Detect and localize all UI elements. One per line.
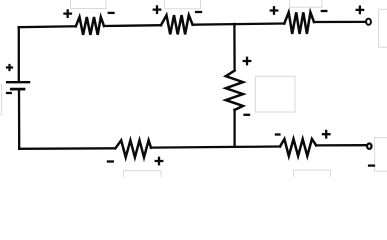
battery V1 plus label [6, 64, 13, 71]
wire top rail left segment [19, 25, 76, 28]
label box above resistor R2 [165, 0, 201, 9]
resistor R6 vertical [226, 71, 243, 110]
resistor R2 plus label [153, 5, 162, 14]
label box at right edge top terminal [379, 9, 387, 47]
wire battery to bottom rail [18, 90, 21, 149]
battery V1 long plate [7, 81, 29, 83]
wire from R5 to terminal B [316, 144, 366, 146]
wire from R6 to bottom rail node B [233, 110, 235, 147]
resistor R2 [161, 15, 193, 34]
wire between R2 and R3 through node A [193, 24, 285, 25]
resistor R1 [76, 17, 104, 35]
label box at right edge bottom terminal [375, 138, 387, 172]
wire node A vertical to resistor R6 [233, 24, 236, 70]
resistor R6 plus label [243, 57, 252, 66]
wire from R3 to terminal A [314, 21, 366, 23]
resistor R5 [280, 139, 316, 156]
battery V1 short plate [11, 88, 24, 91]
label box above resistor R1 [71, 0, 107, 9]
resistor R3 [284, 12, 314, 34]
resistor R4 plus label [155, 157, 164, 166]
resistor R3 minus label [321, 10, 328, 12]
terminal A plus label [356, 6, 365, 15]
label box below resistor R4 [123, 171, 161, 181]
resistor R3 plus label [270, 6, 279, 15]
label box at left edge near battery [0, 85, 2, 114]
resistor R4 minus label [107, 160, 114, 162]
label box above resistor R3 [290, 0, 323, 7]
resistor R1 minus label [108, 12, 115, 14]
wire between R4 and R5 through node B [151, 147, 280, 148]
resistor R5 minus label [275, 133, 281, 135]
label box below resistor R5 [294, 170, 331, 180]
wire between R1 and R2 [104, 24, 161, 27]
wire bottom rail left segment [19, 147, 114, 150]
wire left vertical from top rail to battery [18, 27, 20, 81]
label box beside resistor R6 [255, 76, 295, 112]
resistor R6 minus label [243, 114, 250, 116]
terminal A circle [366, 19, 371, 25]
terminal B circle [367, 144, 371, 149]
terminal B minus label [368, 164, 375, 166]
resistor R1 plus label [63, 9, 72, 18]
resistor R5 plus label [322, 130, 331, 139]
resistor R2 minus label [195, 11, 202, 13]
resistor R4 [115, 140, 151, 157]
battery V1 minus label [6, 92, 12, 94]
